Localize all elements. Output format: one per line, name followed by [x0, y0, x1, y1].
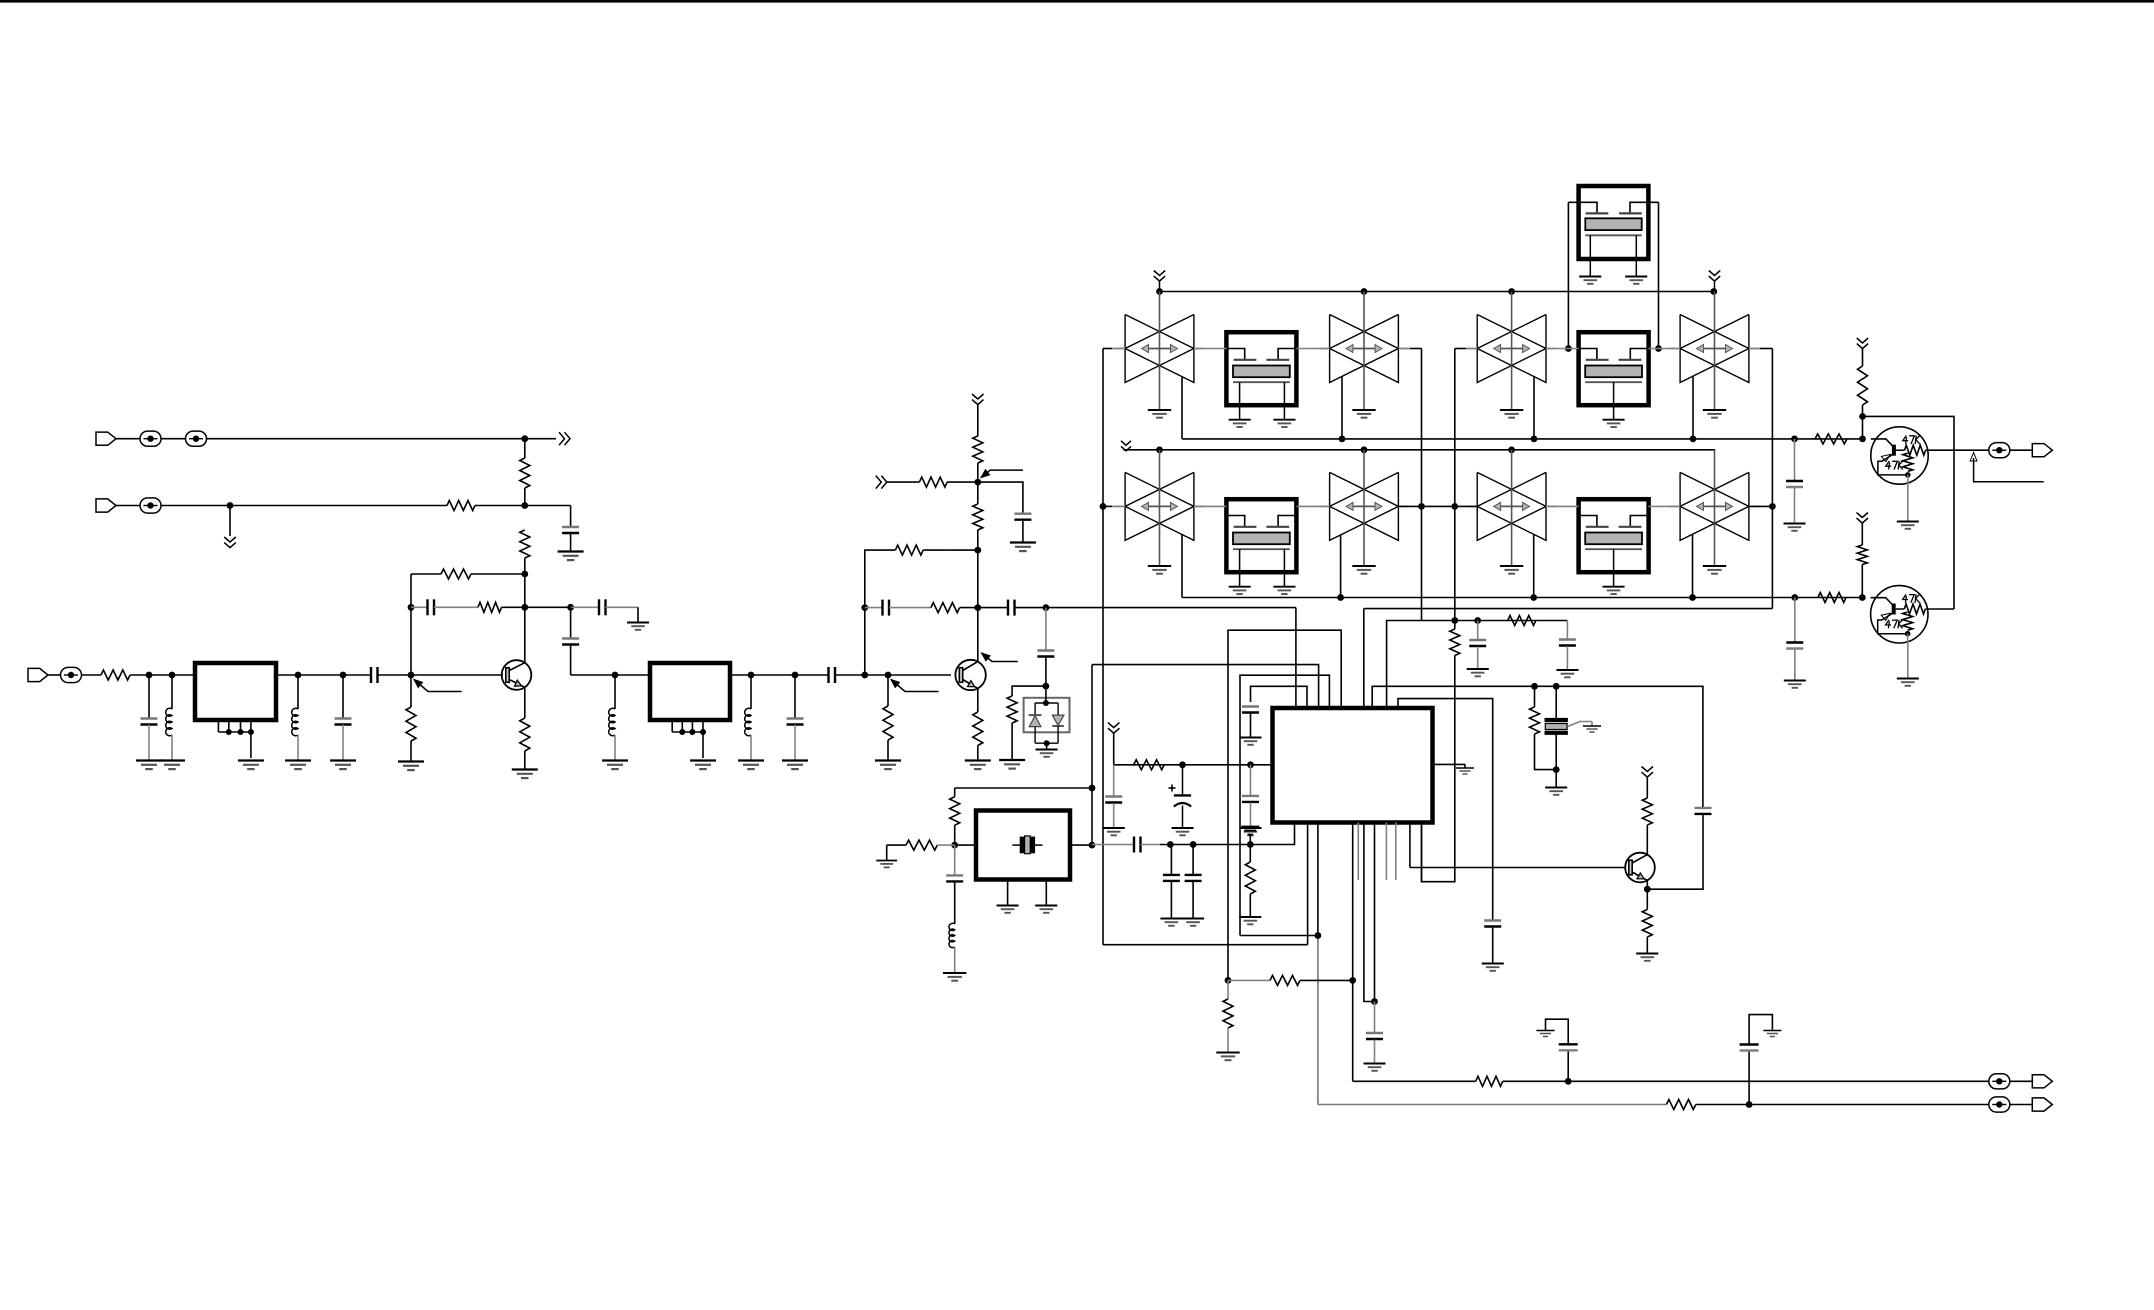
- node: [1859, 594, 1866, 601]
- node: [227, 502, 234, 509]
- wire (pin loop): [1228, 630, 1341, 980]
- wire: [1794, 649, 1796, 680]
- wire (pin): [1307, 823, 1309, 945]
- supply arrow: [1642, 767, 1654, 772]
- discriminator body: [1545, 724, 1567, 730]
- node: [1553, 683, 1560, 690]
- capacitor: [1185, 874, 1202, 876]
- output line A (upper): [1353, 1080, 1476, 1082]
- wire: [1113, 765, 1115, 797]
- node: [340, 672, 347, 679]
- ground: [602, 759, 628, 761]
- ferrite bead FB6: [1989, 1097, 2010, 1112]
- wire: [794, 725, 796, 761]
- wire: [1364, 608, 1773, 610]
- wire: [977, 482, 979, 504]
- resistor R6: [101, 670, 130, 680]
- wire: [1045, 686, 1047, 703]
- node: [748, 672, 755, 679]
- wire: [1192, 845, 1194, 875]
- wire: [955, 787, 1092, 789]
- capacitor C19: [1105, 795, 1122, 797]
- supply arrow: [1857, 338, 1868, 343]
- resistor R13: [973, 504, 983, 530]
- ground: [1467, 668, 1489, 670]
- wire: [297, 735, 299, 760]
- wire: [524, 751, 526, 769]
- supply arrow: [972, 394, 984, 399]
- ground: [965, 759, 991, 761]
- wire: [1045, 608, 1047, 651]
- wire: [571, 606, 599, 608]
- wire: [750, 735, 752, 760]
- wire (vertical from IC loop): [1091, 665, 1093, 846]
- ferrite bead FB4: [61, 667, 82, 682]
- wire: [887, 740, 889, 760]
- wire: [1477, 647, 1479, 669]
- filter module FL2: [650, 663, 730, 720]
- row2 bottom bus (busA): [1181, 534, 1183, 597]
- wire: [1454, 349, 1456, 621]
- electrolytic capacitor C20: [1169, 787, 1176, 789]
- ground: [782, 759, 808, 761]
- ground: [1583, 725, 1601, 727]
- node: [1553, 766, 1560, 773]
- wire (center tap): [1714, 292, 1716, 410]
- wire: [116, 505, 140, 507]
- wire: [1771, 349, 1773, 609]
- wire (Q2 collector): [977, 608, 979, 662]
- ground: [690, 759, 716, 761]
- ground: [285, 759, 311, 761]
- wire: [570, 506, 572, 528]
- wire (outer loop bottom): [1103, 944, 1308, 946]
- wire (pin): [1421, 823, 1423, 882]
- ground: [136, 759, 162, 761]
- wire: [1492, 927, 1494, 963]
- wire: [130, 674, 195, 676]
- wire: [1250, 713, 1252, 737]
- capacitor: [1163, 874, 1180, 876]
- capacitor C12: [1007, 600, 1009, 616]
- ground: [1482, 963, 1504, 965]
- digital transistor Q4 (47K/47K): [1871, 427, 1928, 484]
- capacitor C3: [598, 599, 600, 615]
- wire: [887, 481, 920, 483]
- wire: [1555, 770, 1557, 787]
- ground: [1897, 521, 1919, 523]
- wire: [410, 741, 412, 761]
- ground: [1784, 523, 1806, 525]
- ground: [1897, 678, 1919, 680]
- wire (pin): [1295, 608, 1297, 708]
- wire (IC right pin): [1433, 763, 1466, 765]
- wire: [1862, 349, 1864, 367]
- ground: [1500, 565, 1523, 567]
- connector J3 (RF input): [28, 668, 48, 681]
- node: [1371, 998, 1378, 1005]
- wire (pin): [1250, 823, 1294, 845]
- wire (pin to output A): [1352, 823, 1354, 1082]
- wire to IC pin: [1015, 607, 1296, 609]
- node: [521, 435, 528, 442]
- wire: [889, 607, 931, 609]
- transistor Q1: [502, 660, 532, 690]
- resistor R20: [1450, 629, 1460, 656]
- wire: [1749, 1015, 1772, 1045]
- capacitor C5: [141, 717, 158, 719]
- wire: [1250, 765, 1252, 796]
- wire: [1240, 935, 1318, 937]
- node: [295, 672, 302, 679]
- wire: [1646, 889, 1648, 909]
- wire: [116, 438, 140, 440]
- resistor R29: [1666, 1100, 1695, 1110]
- wire: [1170, 845, 1172, 875]
- ferrite bead FB1: [140, 431, 161, 446]
- wire: [794, 675, 796, 719]
- wire (pin loop): [1240, 675, 1329, 935]
- wire: [954, 825, 956, 845]
- node: [1361, 288, 1368, 295]
- wire: [937, 844, 954, 846]
- off-page arrow: [876, 476, 882, 489]
- ground: [398, 760, 424, 762]
- wire: [148, 675, 150, 719]
- wire: [1534, 686, 1536, 707]
- wire: [1374, 1002, 1376, 1034]
- wire (pin): [1374, 823, 1376, 1002]
- capacitor C7: [370, 667, 372, 683]
- supply arrow: [1154, 271, 1165, 276]
- capacitor C8: [787, 717, 804, 719]
- resistor R33: [1818, 593, 1846, 603]
- ground: [1160, 918, 1182, 920]
- wire: [411, 606, 427, 608]
- wire: [524, 558, 526, 574]
- resistor R5: [478, 602, 502, 612]
- node: [1167, 841, 1174, 848]
- inductor L1: [166, 708, 172, 735]
- connector J6 (audio out): [2032, 444, 2052, 457]
- ceramic filter CF1 (row1): [1125, 315, 1194, 383]
- capacitor C25: [1559, 1043, 1578, 1045]
- wire: [1863, 416, 1955, 609]
- filter module FL4: [1579, 332, 1649, 405]
- wire (Q1 collector): [524, 607, 526, 663]
- node: [1089, 842, 1096, 849]
- wire: [171, 735, 173, 760]
- wire: [1249, 894, 1251, 917]
- limiter diode box D1/D2: [1024, 698, 1070, 733]
- ferrite bead FB3: [140, 498, 161, 513]
- connector J5 (output B): [2032, 1098, 2052, 1111]
- wire: [525, 438, 556, 440]
- wire: [410, 574, 412, 675]
- node: [567, 604, 574, 611]
- wire (Q1 emitter): [524, 687, 526, 718]
- ground: [1036, 749, 1058, 751]
- capacitor C18: [1484, 919, 1501, 921]
- wire: [1862, 405, 1864, 416]
- adjust annotation arrow: [891, 680, 900, 688]
- wire: [1113, 803, 1115, 828]
- resistor R31: [1815, 434, 1847, 444]
- IC U1: [1273, 708, 1433, 823]
- node: [1859, 436, 1866, 443]
- wire: [1374, 1040, 1376, 1064]
- node: [861, 604, 868, 611]
- node: [951, 842, 958, 849]
- X1 ground pins: [1007, 880, 1009, 906]
- resistor R8: [520, 718, 530, 751]
- ground: [1545, 787, 1567, 789]
- wire: [1318, 1104, 1666, 1106]
- wire: [1454, 621, 1456, 630]
- wire: [614, 675, 616, 709]
- wire (pin loop): [1372, 686, 1703, 807]
- wire: [1300, 979, 1353, 981]
- adjust annotation arrow: [981, 470, 990, 478]
- crystal oscillator module X1: [976, 811, 1070, 880]
- ground: [1500, 409, 1523, 411]
- wire (Q5 output): [1928, 608, 1954, 610]
- resistor R7: [406, 707, 416, 741]
- resistor R19: [1508, 616, 1536, 626]
- ceramic filter CF6 (row2): [1330, 472, 1399, 540]
- wire: [502, 606, 571, 608]
- wire: [1794, 488, 1796, 524]
- wire (left riser): [1102, 349, 1104, 945]
- node: [1565, 345, 1572, 352]
- filter module FL1: [195, 663, 276, 720]
- wire: [1113, 733, 1115, 765]
- wire: [977, 746, 979, 761]
- wire (center tap): [1714, 450, 1716, 566]
- node: [1746, 1101, 1753, 1108]
- discriminator plate: [1545, 731, 1568, 735]
- node: [1043, 700, 1049, 706]
- ceramic filter CF8 (row2): [1680, 472, 1749, 540]
- resistor R2: [520, 458, 530, 488]
- wire: [750, 675, 752, 709]
- ceramic filter CF3 (row1): [1477, 315, 1546, 383]
- node: [1655, 345, 1662, 352]
- capacitor C27: [1786, 480, 1803, 482]
- connector J1 (top-left input): [96, 432, 116, 445]
- ground: [1352, 409, 1375, 411]
- ground: [1556, 669, 1578, 671]
- ground: [1148, 409, 1171, 411]
- capacitor C28: [1786, 641, 1803, 643]
- wire: [1141, 844, 1161, 846]
- filter module FL5: [1226, 499, 1296, 572]
- transistor Q3: [1625, 853, 1655, 883]
- wire (Q5 emitter): [1907, 643, 1909, 678]
- node: [408, 604, 415, 611]
- wire (pin): [1364, 823, 1375, 1002]
- ceramic filter CF4 (row1): [1680, 315, 1749, 383]
- ground: [238, 759, 264, 761]
- wire (pin): [1363, 609, 1365, 708]
- ground: [999, 759, 1025, 761]
- capacitor C10: [1014, 513, 1031, 515]
- row1 mid wires: [1103, 348, 1112, 350]
- IC left pin line: [1251, 764, 1274, 766]
- wire (Q4 emitter): [1907, 484, 1909, 521]
- node: [1531, 683, 1538, 690]
- resistor R28: [1476, 1076, 1503, 1086]
- ground: [875, 759, 901, 761]
- wire: [342, 675, 344, 719]
- wire: [606, 606, 639, 608]
- crystal output line to IC: [1092, 844, 1134, 846]
- wire (pin stub): [1395, 823, 1397, 881]
- node: [1247, 841, 1254, 848]
- node: [1710, 288, 1717, 295]
- wire: [977, 530, 979, 550]
- capacitor C9: [827, 667, 829, 683]
- ground: [1364, 1063, 1386, 1065]
- node: [792, 672, 799, 679]
- node: [1190, 841, 1197, 848]
- ground: [1456, 767, 1474, 769]
- row2 mid wires: [1103, 505, 1112, 507]
- wire: [1861, 565, 1863, 598]
- capacitor C24: [1366, 1032, 1383, 1034]
- resistor R10: [973, 712, 983, 746]
- node: [521, 502, 528, 509]
- discriminator plate: [1545, 718, 1568, 722]
- adjust annotation arrow: [982, 653, 991, 661]
- wire (center tap): [1511, 450, 1513, 566]
- wire: [1503, 1080, 1989, 1082]
- resistor R12: [919, 477, 947, 487]
- wire: [977, 463, 979, 482]
- ferrite bead FB7: [1989, 443, 2010, 458]
- wire (pin to output B): [1317, 823, 1319, 936]
- resistor R23: [1642, 798, 1652, 825]
- wire: [378, 674, 504, 676]
- ground: [1216, 1052, 1239, 1054]
- node: [974, 479, 981, 486]
- wire: [48, 674, 61, 676]
- wire: [1227, 980, 1229, 999]
- node: [861, 672, 868, 679]
- ground: [1784, 680, 1806, 682]
- wire: [1646, 937, 1648, 953]
- resistor R24: [1642, 910, 1652, 938]
- wire: [1160, 844, 1250, 846]
- wire: [1249, 835, 1251, 845]
- ceramic filter CF5 (row2): [1125, 472, 1194, 540]
- ground: [1240, 737, 1262, 739]
- annotation arrow at output: [1970, 453, 1977, 462]
- capacitor C17: [1559, 638, 1576, 640]
- wire: [1421, 349, 1423, 621]
- wire: [434, 606, 478, 608]
- wire: [1567, 1051, 1569, 1082]
- wire (center tap): [1511, 292, 1513, 410]
- resistor R32: [1857, 545, 1867, 565]
- wire: [1566, 646, 1568, 670]
- wire: [1070, 844, 1092, 846]
- wire: [1591, 722, 1593, 726]
- resistor R4: [441, 569, 471, 579]
- ground: [1239, 916, 1261, 918]
- wire: [1477, 621, 1479, 641]
- top bus wire: [1160, 291, 1715, 293]
- wire (3rd terminal): [1568, 722, 1592, 727]
- transistor Q2: [955, 660, 985, 690]
- resistor R16: [1007, 696, 1017, 723]
- wire: [1658, 202, 1660, 348]
- capacitor C16: [1469, 639, 1486, 641]
- wire: [1567, 202, 1569, 348]
- node: [146, 672, 153, 679]
- FL1 ground pins: [217, 720, 219, 732]
- resistor R17: [950, 797, 960, 826]
- node: [612, 672, 619, 679]
- capacitor C21: [1242, 795, 1259, 797]
- node: [1791, 594, 1798, 601]
- diode D2 (right, pointing down): [1057, 703, 1059, 715]
- ground: [1352, 565, 1375, 567]
- wire: [1646, 777, 1648, 798]
- resistor R25: [1245, 862, 1255, 894]
- wire: [148, 725, 150, 761]
- node: [1791, 436, 1798, 443]
- wire: [570, 645, 572, 675]
- wire: [570, 534, 572, 552]
- wire: [1555, 733, 1557, 770]
- resistor R30: [1858, 366, 1868, 405]
- node: [1315, 932, 1322, 939]
- ground: [159, 759, 185, 761]
- wire: [524, 574, 526, 607]
- node: [1565, 1078, 1572, 1085]
- wire: [1794, 439, 1796, 481]
- resistor R15: [931, 603, 960, 613]
- wire: [475, 505, 571, 507]
- wire (pin loop): [1398, 699, 1493, 920]
- wire: [923, 549, 947, 551]
- resistor R18: [906, 840, 937, 850]
- wire (center tap): [1363, 450, 1365, 566]
- inductor L4: [745, 708, 751, 735]
- ground: [876, 860, 897, 862]
- crystal symbol inside X1: [1012, 844, 1021, 846]
- row1 bottom bus: [1181, 377, 1183, 439]
- wire: [1012, 686, 1046, 696]
- off-page arrow right: [559, 432, 565, 445]
- filter module FL3: [1226, 332, 1296, 405]
- node: [1044, 740, 1050, 746]
- node: [169, 672, 176, 679]
- wire: [1011, 723, 1013, 760]
- wire: [276, 674, 371, 676]
- node: [1474, 617, 1481, 624]
- wire: [1045, 657, 1047, 686]
- connector J2 (second input): [96, 499, 116, 512]
- wire: [161, 505, 447, 507]
- wire: [82, 674, 102, 676]
- node: [1043, 604, 1050, 611]
- ferrite bead FB2: [186, 431, 207, 446]
- resistor R26: [1270, 975, 1300, 985]
- node: [1508, 288, 1515, 295]
- top border bar: [0, 0, 2154, 3]
